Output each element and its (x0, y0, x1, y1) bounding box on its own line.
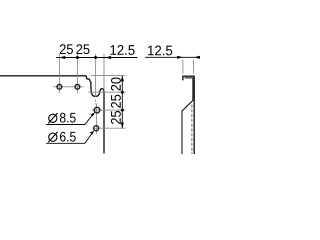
vertical centerline through C and D (96, 104, 98, 134)
side ext line left (182, 60, 184, 74)
dim text 25 rotated low (111, 111, 121, 124)
label 8.5 diameter symbol (49, 114, 57, 122)
hole B (75, 84, 80, 89)
right chain extension y75.7 (91, 75, 125, 77)
top dimension line (56, 57, 137, 59)
leader 8.5 arrow (90, 112, 94, 116)
label 6.5 diameter symbol (49, 133, 57, 141)
side view hidden dashed line (191, 105, 193, 155)
leader 8.5 (46, 113, 94, 124)
hole B centerline/extension vertical (76, 54, 78, 93)
hole centerline horizontal (53, 86, 84, 88)
side view outer profile (183, 76, 194, 154)
arrow left end (59, 56, 65, 59)
leader 6.5 (46, 132, 93, 144)
dim text 20 rotated (111, 77, 121, 90)
right chain dim line (121, 76, 123, 129)
side arrow right-pointing (177, 56, 183, 59)
leader 6.5 arrow (90, 131, 94, 135)
front view plate outline (0, 76, 104, 154)
dim text 12.5 side (148, 46, 172, 56)
right chain extension / hole D h-centerline y128 (92, 127, 125, 129)
dot at 25/12.5 (94, 56, 97, 59)
arrow up (121, 76, 124, 82)
hole C (8.5) (94, 107, 100, 113)
arrow 12.5 (105, 56, 111, 59)
hole D (6.5) (94, 126, 99, 131)
hole A (57, 84, 62, 89)
right chain extension / notch h-centerline y92.3 (88, 91, 125, 93)
side arrow left-pointing (194, 56, 200, 59)
label 8.5 text (60, 113, 76, 123)
dot at 25/25 (76, 56, 79, 59)
label 6.5 text (60, 132, 76, 142)
dot chain 20/25 (121, 91, 124, 94)
right chain extension / hole C h-centerline y110 (92, 109, 126, 111)
dim text 25 second (76, 44, 89, 54)
arrow down (121, 123, 124, 129)
dot chain 25/25 (121, 109, 124, 112)
notch vertical centerline (95, 54, 97, 97)
side ext line right (193, 60, 195, 74)
hole A centerline/extension vertical (58, 54, 60, 93)
dim text 12.5 top (110, 45, 134, 55)
dim text 25 first (60, 44, 73, 54)
side view inner profile (182, 78, 193, 154)
extension line plate right edge (103, 54, 105, 90)
dim text 25 rotated mid (111, 95, 121, 108)
side dim line (145, 56, 200, 58)
